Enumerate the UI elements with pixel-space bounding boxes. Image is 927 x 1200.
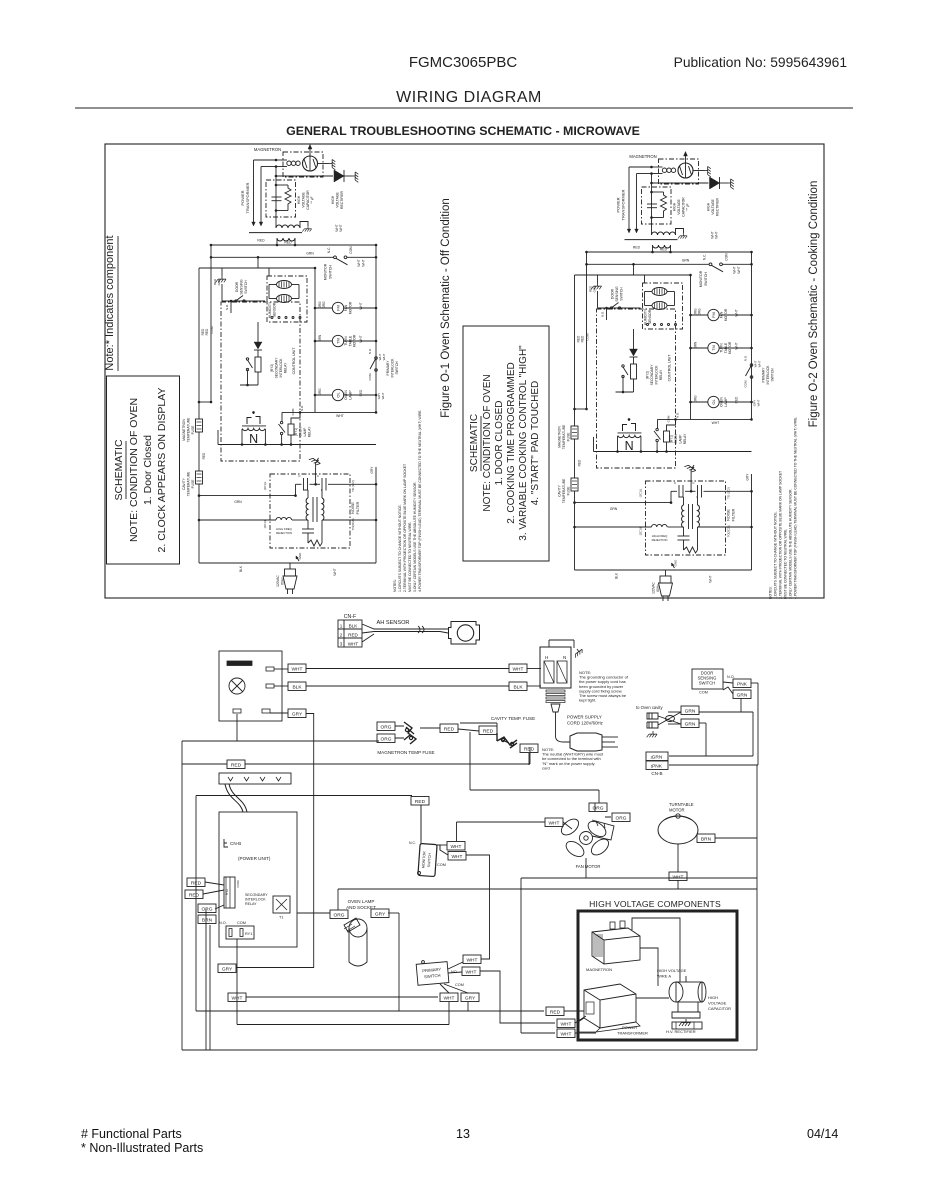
svg-text:LAMP: LAMP [303, 427, 307, 437]
svg-text:WHT: WHT [382, 353, 386, 360]
svg-text:MAGNETRON: MAGNETRON [586, 967, 612, 972]
svg-text:FUSE: FUSE [567, 432, 571, 442]
svg-text:MONITOR: MONITOR [324, 263, 328, 280]
svg-text:OVEN LAMP: OVEN LAMP [348, 899, 375, 904]
svg-text:(RY1): (RY1) [294, 428, 298, 437]
svg-text:RY2: RY2 [225, 889, 229, 895]
svg-text:WHT: WHT [735, 342, 739, 349]
svg-text:4.POWER TRANSFORMER TOP (FINIS: 4.POWER TRANSFORMER TOP (FINISH LEAD) TE… [794, 417, 798, 599]
svg-text:COM: COM [349, 246, 353, 254]
svg-text:2. CLOCK APPEARS ON DISPLAY: 2. CLOCK APPEARS ON DISPLAY [156, 388, 168, 553]
svg-text:TEMPERATURE: TEMPERATURE [562, 424, 566, 449]
svg-text:CAVITY: CAVITY [182, 477, 186, 489]
svg-text:WHT: WHT [466, 969, 477, 975]
svg-text:VOLTAGE: VOLTAGE [336, 192, 340, 208]
svg-text:1: 1 [340, 624, 343, 629]
svg-text:VOLTAGE: VOLTAGE [711, 199, 715, 215]
svg-text:FGMC3065PBC: FGMC3065PBC [409, 54, 518, 71]
svg-text:GND: GND [298, 552, 302, 560]
svg-text:REJECTION: REJECTION [652, 538, 668, 542]
svg-text:GENERAL TROUBLESHOOTING SCHEMA: GENERAL TROUBLESHOOTING SCHEMATIC - MICR… [286, 124, 640, 138]
svg-text:60Hz: 60Hz [656, 584, 660, 592]
svg-text:CONTROL UNIT: CONTROL UNIT [668, 354, 672, 382]
svg-text:COM: COM [210, 326, 214, 334]
svg-text:(RY2): (RY2) [270, 364, 274, 373]
svg-text:INTERLOCK: INTERLOCK [245, 897, 266, 901]
svg-text:SECONDARY: SECONDARY [650, 364, 654, 386]
svg-text:ORG: ORG [694, 395, 698, 403]
svg-text:MUST BE CONNECTED TO NEUTRAL W: MUST BE CONNECTED TO NEUTRAL WIRE. [784, 529, 788, 599]
svg-text:MOTOR: MOTOR [353, 334, 357, 347]
svg-text:kept tight.: kept tight. [579, 698, 596, 703]
svg-text:MAGNETRON TEMP FUSE: MAGNETRON TEMP FUSE [377, 750, 434, 755]
svg-text:COM: COM [667, 415, 671, 422]
svg-text:RED: RED [444, 726, 455, 732]
svg-text:BRN: BRN [694, 341, 698, 348]
svg-text:WHT: WHT [561, 1031, 572, 1037]
svg-text:WHT: WHT [452, 854, 463, 860]
svg-text:LAMP: LAMP [724, 397, 728, 407]
svg-text:BRN: BRN [202, 917, 213, 923]
svg-text:BLK: BLK [349, 624, 359, 629]
svg-text:RED: RED [578, 459, 582, 466]
svg-text:ORG: ORG [381, 724, 392, 730]
svg-text:N.C.: N.C. [703, 254, 707, 260]
svg-text:TURNTABLE: TURNTABLE [669, 802, 694, 807]
svg-text:ORG: ORG [202, 906, 213, 912]
svg-text:PRIMARY: PRIMARY [762, 367, 766, 383]
svg-text:N.O.: N.O. [300, 405, 304, 411]
svg-text:WHT: WHT [359, 335, 363, 342]
svg-text:3: 3 [340, 642, 343, 647]
svg-text:HIGH: HIGH [707, 202, 711, 211]
svg-text:TM: TM [711, 345, 716, 351]
svg-text:"N" mark on the power supp: "N" mark on the power supply [542, 761, 595, 766]
svg-text:SENSOR: SENSOR [273, 302, 277, 317]
svg-text:(1C1)L: (1C1)L [263, 481, 267, 490]
svg-text:INTERLOCK: INTERLOCK [279, 358, 283, 378]
svg-text:FM: FM [336, 305, 341, 311]
svg-text:MUST BE CONNECTED TO NEUTRAL W: MUST BE CONNECTED TO NEUTRAL WIRE. [408, 522, 412, 592]
svg-text:PNK: PNK [737, 681, 748, 687]
svg-text:RED: RED [550, 1009, 561, 1015]
svg-text:INTERLOCK: INTERLOCK [766, 365, 770, 385]
svg-text:1.CIRCUITS SUBJECT TO CHANGE W: 1.CIRCUITS SUBJECT TO CHANGE WITHOUT NOT… [774, 511, 778, 599]
svg-text:HIGH VOLTAGE: HIGH VOLTAGE [657, 968, 687, 973]
svg-text:COM: COM [368, 373, 372, 381]
svg-text:GRY: GRY [222, 966, 233, 972]
svg-text:WHT: WHT [451, 844, 462, 850]
svg-text:BLK: BLK [239, 565, 243, 572]
svg-text:FUSE: FUSE [191, 479, 195, 489]
svg-text:TO(2C2)L: TO(2C2)L [727, 524, 731, 537]
svg-text:MAGNETRON: MAGNETRON [182, 419, 186, 441]
svg-text:RELAY: RELAY [659, 369, 663, 380]
svg-text:(POWER UNIT): (POWER UNIT) [238, 856, 271, 861]
svg-text:2: 2 [340, 633, 343, 638]
svg-text:SWITCH: SWITCH [244, 280, 248, 294]
svg-text:CONTROL UNIT: CONTROL UNIT [292, 347, 296, 375]
svg-text:PNK: PNK [652, 763, 663, 769]
svg-text:GND: GND [674, 559, 678, 567]
svg-text:Publication No: 5995643961: Publication No: 5995643961 [674, 55, 847, 70]
svg-text:PRIMARY: PRIMARY [386, 360, 390, 376]
svg-text:WHT: WHT [444, 995, 455, 1001]
svg-text:SENSING: SENSING [240, 279, 244, 295]
svg-text:COM: COM [437, 863, 446, 867]
svg-text:N: N [249, 432, 258, 446]
svg-text:SWITCH: SWITCH [329, 265, 333, 279]
svg-text:CN-B: CN-B [230, 841, 241, 846]
svg-text:OL: OL [711, 399, 716, 405]
svg-text:RED: RED [581, 335, 585, 342]
svg-text:WHT: WHT [339, 224, 343, 231]
svg-text:OL: OL [336, 392, 341, 398]
svg-text:GRN: GRN [737, 692, 748, 698]
svg-text:N.O.: N.O. [676, 412, 680, 418]
svg-text:GRN: GRN [593, 286, 597, 293]
svg-text:ORG: ORG [593, 805, 604, 811]
svg-text:60Hz: 60Hz [281, 577, 285, 585]
svg-text:FAN MOTOR: FAN MOTOR [576, 864, 601, 869]
svg-text:RED: RED [483, 728, 494, 734]
svg-text:Note:* Indicates component: Note:* Indicates component [104, 235, 116, 370]
svg-text:RED: RED [189, 892, 200, 898]
svg-text:WIRING DIAGRAM: WIRING DIAGRAM [396, 89, 542, 106]
svg-text:RED: RED [284, 241, 292, 245]
svg-text:OVEN: OVEN [299, 427, 303, 437]
svg-text:HUMIDITY: HUMIDITY [644, 308, 648, 325]
svg-text:(2C1)L: (2C1)L [263, 519, 267, 528]
svg-text:NOTE: CONDITION OF OVEN: NOTE: CONDITION OF OVEN [128, 398, 140, 542]
svg-text:COM: COM [725, 253, 729, 261]
svg-text:** µF: ** µF [686, 203, 690, 210]
svg-text:SCHEMATIC: SCHEMATIC [469, 414, 480, 472]
svg-text:WHT: WHT [735, 309, 739, 316]
svg-text:TRANSFORMER: TRANSFORMER [617, 1031, 648, 1036]
svg-text:HIGH VOLTAGE COMPONENTS: HIGH VOLTAGE COMPONENTS [589, 899, 721, 909]
svg-text:ORG: ORG [698, 308, 702, 316]
svg-text:RED: RED [524, 746, 535, 752]
svg-text:RED: RED [633, 246, 641, 250]
svg-text:DOOR: DOOR [611, 288, 615, 299]
svg-text:CAPACITOR: CAPACITOR [708, 1006, 731, 1011]
svg-text:TO (1C2): TO (1C2) [351, 480, 355, 492]
svg-text:GRY: GRY [746, 473, 750, 481]
svg-text:BRN: BRN [701, 836, 712, 842]
svg-text:RED: RED [660, 248, 668, 252]
svg-text:RED: RED [359, 389, 363, 396]
svg-text:2.TERMINAL WITH PROJECTION OR: 2.TERMINAL WITH PROJECTION OR OPPOSITE B… [779, 471, 783, 599]
svg-text:POWER: POWER [622, 1025, 637, 1030]
svg-text:GRN: GRN [685, 708, 696, 714]
svg-text:LAMP: LAMP [348, 390, 352, 400]
svg-text:GRY: GRY [292, 711, 303, 717]
svg-text:3.ONLY CERTAIN MODELS USE THE: 3.ONLY CERTAIN MODELS USE THE ABSOLUTE H… [789, 489, 793, 599]
svg-text:TM: TM [336, 338, 341, 344]
svg-text:FUSE: FUSE [191, 425, 195, 435]
svg-text:FILTER: FILTER [732, 508, 736, 521]
svg-text:TO (1C2): TO (1C2) [727, 487, 731, 499]
svg-text:WIRE A: WIRE A [657, 974, 671, 979]
svg-text:RED: RED [231, 762, 242, 768]
svg-text:INTERLOCK: INTERLOCK [391, 358, 395, 378]
svg-text:120VAC: 120VAC [652, 581, 656, 593]
svg-text:SWITCH: SWITCH [395, 361, 399, 375]
svg-text:WHT: WHT [359, 302, 363, 309]
svg-text:WHT: WHT [336, 414, 344, 418]
svg-text:ORG: ORG [318, 388, 322, 396]
svg-text:HIGH: HIGH [331, 195, 335, 204]
svg-text:HIGH: HIGH [708, 995, 718, 1000]
svg-text:GRN: GRN [234, 500, 242, 504]
svg-text:NOTES:: NOTES: [393, 579, 397, 592]
svg-text:2. COOKING TIME PROGRAMMED: 2. COOKING TIME PROGRAMMED [506, 362, 517, 524]
svg-text:cord: cord [542, 765, 550, 770]
svg-text:Figure O-2 Oven Schematic - Co: Figure O-2 Oven Schematic - Cooking Cond… [808, 181, 820, 428]
svg-text:GRN: GRN [217, 279, 221, 286]
svg-text:GRY: GRY [370, 466, 374, 474]
svg-text:H: H [545, 655, 548, 660]
svg-text:FM: FM [711, 312, 716, 318]
svg-text:GRN: GRN [610, 507, 618, 511]
svg-text:RY1: RY1 [245, 932, 252, 936]
svg-text:SCHEMATIC: SCHEMATIC [113, 439, 125, 500]
svg-text:WHT: WHT [758, 360, 762, 367]
svg-text:MOTOR: MOTOR [728, 341, 732, 354]
svg-text:RELAY: RELAY [683, 433, 687, 444]
svg-text:1. DOOR CLOSED: 1. DOOR CLOSED [494, 400, 505, 485]
svg-text:SENSOR: SENSOR [648, 309, 652, 324]
svg-text:N.C.: N.C. [327, 247, 331, 253]
svg-text:COM: COM [455, 983, 464, 987]
svg-text:MAGNETRON: MAGNETRON [629, 154, 656, 159]
svg-text:RED: RED [415, 799, 426, 805]
svg-text:COM: COM [237, 921, 246, 925]
svg-text:HIGH: HIGH [673, 202, 677, 211]
svg-text:BLK: BLK [615, 572, 619, 579]
svg-text:WHT: WHT [715, 231, 719, 238]
svg-text:RELAY: RELAY [308, 426, 312, 437]
svg-text:CAVITY: CAVITY [558, 484, 562, 496]
svg-text:WHT: WHT [757, 399, 761, 406]
svg-text:3.ONLY CERTAIN MODELS USE THE: 3.ONLY CERTAIN MODELS USE THE ABSOLUTE H… [413, 482, 417, 592]
svg-text:T1: T1 [279, 916, 283, 920]
svg-text:NOISE: NOISE [727, 509, 731, 521]
svg-text:HUMIDITY: HUMIDITY [268, 301, 272, 318]
svg-text:WHT: WHT [709, 575, 713, 582]
svg-text:1. Door Closed: 1. Door Closed [142, 435, 154, 505]
svg-text:CORD 120V/60Hz: CORD 120V/60Hz [567, 721, 603, 726]
svg-text:WHT: WHT [348, 642, 359, 647]
svg-text:WHT: WHT [333, 568, 337, 575]
svg-text:1.CIRCUITS SUBJECT TO CHANGE W: 1.CIRCUITS SUBJECT TO CHANGE WITHOUT NOT… [398, 504, 402, 592]
svg-text:NOISE: NOISE [351, 502, 355, 514]
svg-text:TEMPERATURE: TEMPERATURE [562, 478, 566, 503]
svg-text:GRY: GRY [465, 995, 476, 1001]
svg-text:4. "START" PAD TOUCHED: 4. "START" PAD TOUCHED [530, 381, 541, 506]
svg-text:N.O.: N.O. [225, 304, 229, 310]
svg-text:4.POWER TRANSFORMER TOP (FINIS: 4.POWER TRANSFORMER TOP (FINISH LEAD) TE… [418, 410, 422, 592]
svg-text:RELAY: RELAY [245, 902, 257, 906]
svg-text:GRN: GRN [652, 754, 663, 760]
svg-text:RED: RED [205, 328, 209, 335]
svg-text:INTERLOCK: INTERLOCK [655, 365, 659, 385]
svg-text:RED: RED [735, 396, 739, 403]
svg-text:CAVITY TEMP. FUSE: CAVITY TEMP. FUSE [491, 716, 535, 721]
svg-text:RECTIFIER: RECTIFIER [340, 191, 344, 209]
svg-text:WHT: WHT [292, 666, 303, 672]
svg-text:MOTOR: MOTOR [724, 308, 728, 321]
svg-text:CN-B: CN-B [651, 771, 662, 776]
svg-text:COM: COM [744, 380, 748, 388]
svg-text:TO(2C2)L: TO(2C2)L [351, 517, 355, 530]
svg-text:3. VARIABLE COOKING CONTROL "H: 3. VARIABLE COOKING CONTROL "HIGH" [518, 345, 529, 541]
svg-text:WHT: WHT [467, 957, 478, 963]
svg-text:H.V. RECTIFIER: H.V. RECTIFIER [666, 1029, 696, 1034]
svg-text:BLK: BLK [292, 684, 302, 690]
svg-text:SECONDARY: SECONDARY [275, 357, 279, 379]
svg-text:OVEN: OVEN [674, 434, 678, 444]
svg-text:COM: COM [236, 880, 240, 888]
svg-text:to Oven cavity: to Oven cavity [636, 705, 663, 710]
svg-text:N.O.: N.O. [368, 348, 372, 354]
svg-text:TRANSFORMER: TRANSFORMER [621, 189, 626, 220]
svg-text:ORG: ORG [334, 912, 345, 918]
svg-text:MAGNETRON: MAGNETRON [254, 147, 281, 152]
svg-text:WHT: WHT [513, 666, 524, 672]
svg-text:GRN: GRN [306, 252, 314, 256]
svg-text:(1C1)L: (1C1)L [639, 488, 643, 497]
svg-text:VOLTAGE: VOLTAGE [302, 192, 306, 208]
svg-text:WHT: WHT [561, 1021, 572, 1027]
svg-text:COM: COM [586, 333, 590, 341]
svg-text:WHT: WHT [733, 266, 737, 273]
svg-text:CN-F: CN-F [344, 614, 356, 620]
svg-text:RELAY: RELAY [284, 362, 288, 373]
svg-text:RED: RED [202, 452, 206, 459]
svg-text:** µF: ** µF [310, 196, 314, 203]
svg-text:POWER SUPPLY: POWER SUPPLY [567, 715, 602, 720]
svg-text:RED: RED [257, 239, 265, 243]
svg-text:ORG: ORG [322, 301, 326, 309]
svg-text:TRANSFORMER: TRANSFORMER [245, 182, 250, 213]
svg-text:GRN: GRN [682, 259, 690, 263]
svg-text:FILTER: FILTER [356, 501, 360, 514]
svg-text:SWITCH: SWITCH [620, 287, 624, 301]
svg-text:(RY1): (RY1) [670, 435, 674, 444]
svg-text:RECTIFIER: RECTIFIER [716, 198, 720, 216]
svg-text:SWITCH: SWITCH [699, 681, 716, 686]
svg-text:GRY: GRY [375, 911, 386, 917]
svg-text:N: N [563, 655, 566, 660]
svg-text:VOLTAGE: VOLTAGE [708, 1001, 727, 1006]
svg-text:REJECTION: REJECTION [276, 531, 292, 535]
svg-text:MAGNETRON: MAGNETRON [558, 426, 562, 448]
svg-text:NOTES:: NOTES: [769, 586, 773, 599]
svg-text:MONITOR: MONITOR [699, 270, 703, 287]
svg-text:HIGH: HIGH [297, 195, 301, 204]
svg-text:ORG: ORG [616, 815, 627, 821]
svg-text:WHT: WHT [549, 820, 560, 826]
svg-text:N.O.: N.O. [744, 355, 748, 361]
svg-text:TEMPERATURE: TEMPERATURE [187, 471, 191, 496]
svg-text:WHT: WHT [357, 259, 361, 266]
svg-text:FUSE: FUSE [567, 486, 571, 496]
svg-text:SWITCH: SWITCH [771, 368, 775, 382]
svg-text:N.O.: N.O. [601, 311, 605, 317]
svg-text:MOTOR: MOTOR [348, 301, 352, 314]
svg-text:WHT: WHT [381, 392, 385, 399]
svg-text:WHT: WHT [737, 266, 741, 273]
svg-text:N.O.: N.O. [727, 675, 735, 679]
svg-text:WHT: WHT [673, 874, 684, 880]
svg-text:N.O.: N.O. [219, 921, 227, 925]
svg-text:MOTOR: MOTOR [669, 808, 685, 813]
svg-text:BLK: BLK [513, 684, 523, 690]
svg-text:SENSING: SENSING [615, 286, 619, 302]
svg-text:BRN: BRN [318, 334, 322, 341]
svg-text:COM: COM [291, 408, 295, 415]
svg-text:DOOR: DOOR [235, 281, 239, 292]
svg-text:RED: RED [348, 633, 358, 638]
svg-text:120VAC: 120VAC [276, 574, 280, 586]
svg-text:(RY2): (RY2) [646, 371, 650, 380]
svg-text:N: N [625, 439, 634, 453]
svg-text:SWITCH: SWITCH [704, 272, 708, 286]
svg-text:COM: COM [699, 691, 708, 695]
svg-text:WHT: WHT [712, 421, 720, 425]
svg-text:N.C.: N.C. [409, 841, 416, 845]
svg-text:LAMP: LAMP [679, 434, 683, 444]
svg-text:ORG: ORG [381, 736, 392, 742]
svg-text:AH SENSOR: AH SENSOR [377, 620, 410, 626]
svg-text:NOTE: CONDITION OF OVEN: NOTE: CONDITION OF OVEN [482, 374, 493, 511]
svg-text:WHT: WHT [362, 259, 366, 266]
svg-text:VOLTAGE: VOLTAGE [677, 199, 681, 215]
svg-text:SECONDARY: SECONDARY [245, 893, 268, 897]
svg-text:GRN: GRN [685, 721, 696, 727]
svg-text:Figure O-1 Oven Schematic - Of: Figure O-1 Oven Schematic - Off Conditio… [440, 198, 452, 418]
svg-text:(2C1)L: (2C1)L [639, 526, 643, 535]
svg-text:TEMPERATURE: TEMPERATURE [187, 417, 191, 442]
svg-text:2.TERMINAL WITH PROJECTION OR: 2.TERMINAL WITH PROJECTION OR OPPOSITE B… [403, 464, 407, 592]
